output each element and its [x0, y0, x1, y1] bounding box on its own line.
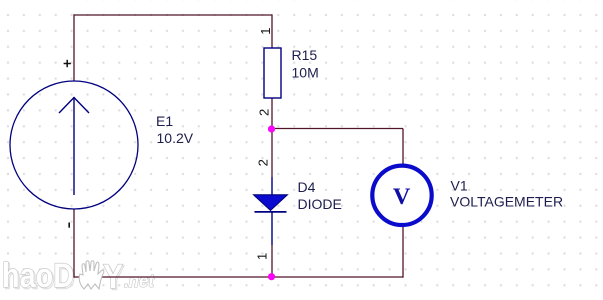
junction node dot (bottom net) — [268, 273, 275, 280]
wire W3 vertical to R15 top (272,15)-(272,48) — [271, 14, 273, 48]
wire W4 R15 bottom to node (272,98)-(272,129) — [271, 98, 273, 129]
voltage source E1 circle — [10, 81, 138, 209]
wire W7 node to diode top (272,129)-(272,177) — [271, 129, 273, 177]
minus polarity mark — [68, 223, 70, 228]
svg-text:V: V — [393, 184, 411, 210]
voltmeter V1 — [372, 166, 431, 225]
svg-text:2: 2 — [256, 109, 271, 116]
svg-text:VOLTAGEMETER: VOLTAGEMETER — [450, 194, 563, 210]
svg-text:1: 1 — [258, 27, 273, 34]
watermark haoDVY.net — [2, 257, 155, 298]
wire W8 diode bottom to bottom net (272,245)-(272,277) — [271, 245, 273, 277]
plus polarity mark — [64, 60, 71, 67]
svg-text:1: 1 — [255, 253, 270, 260]
svg-text:10M: 10M — [292, 65, 319, 81]
resistor R15 — [264, 48, 281, 98]
svg-text:10.2V: 10.2V — [157, 130, 194, 146]
svg-text:V1: V1 — [451, 178, 468, 194]
svg-text:haoD: haoD — [2, 257, 74, 295]
wire W1 top horizontal (74,15)-(272,15) — [74, 14, 272, 16]
svg-text:2: 2 — [256, 159, 271, 166]
wire W2 left vertical (74,15)-(74,81) — [73, 14, 75, 81]
svg-text:R15: R15 — [292, 47, 318, 63]
voltage source E1 arrow — [59, 97, 89, 195]
wire W10 source bottom vertical (74,209)-(74,277) — [73, 209, 75, 278]
watermark hand logo — [79, 261, 104, 289]
svg-text:D4: D4 — [298, 179, 316, 195]
wire W9 bottom horizontal (74,277)-(403,277) — [74, 276, 403, 278]
wire W6 down to voltmeter top (403,128.5)-(403,164) — [402, 129, 404, 165]
diode D4 — [254, 177, 288, 245]
wire W11 voltmeter bottom vertical (403,227)-(403,277) — [402, 227, 404, 278]
junction node dot (R15/D4/V1 net) — [268, 125, 275, 132]
wire W5 node horizontal (272,128.5)-(403,128.5) — [272, 128, 403, 130]
svg-text:DIODE: DIODE — [298, 196, 342, 212]
svg-text:E1: E1 — [156, 113, 173, 129]
svg-text:.net: .net — [124, 271, 155, 291]
